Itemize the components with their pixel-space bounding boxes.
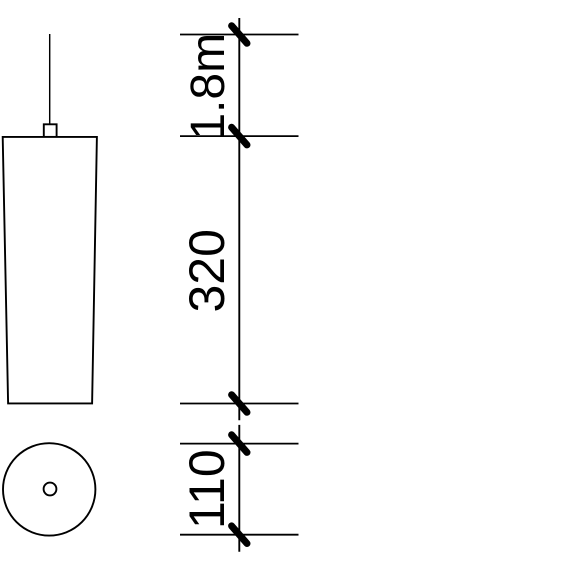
shade front view (tapered cylinder) [3, 137, 97, 404]
extension line at shade top [180, 135, 299, 137]
canopy (ceiling connector box) [44, 124, 57, 137]
extension line at cord top [180, 34, 299, 36]
extension line at circle top [180, 443, 299, 445]
svg-text:1.8m: 1.8m [182, 33, 235, 140]
svg-text:320: 320 [179, 229, 235, 312]
svg-text:110: 110 [179, 449, 235, 529]
extension line at circle bottom [180, 534, 299, 536]
cord (suspension wire) [49, 34, 51, 125]
tick at cord top [232, 26, 247, 44]
tick at circle bottom [232, 526, 247, 544]
top view outer circle [3, 443, 95, 535]
tick at shade top [232, 127, 247, 145]
extension line at shade bottom [180, 403, 299, 405]
tick at circle top [232, 435, 247, 453]
dimension line upper segment [238, 18, 240, 420]
top view inner circle (cord hole) [44, 483, 57, 496]
tick at shade bottom [232, 395, 247, 413]
dimension line lower segment [238, 425, 240, 552]
